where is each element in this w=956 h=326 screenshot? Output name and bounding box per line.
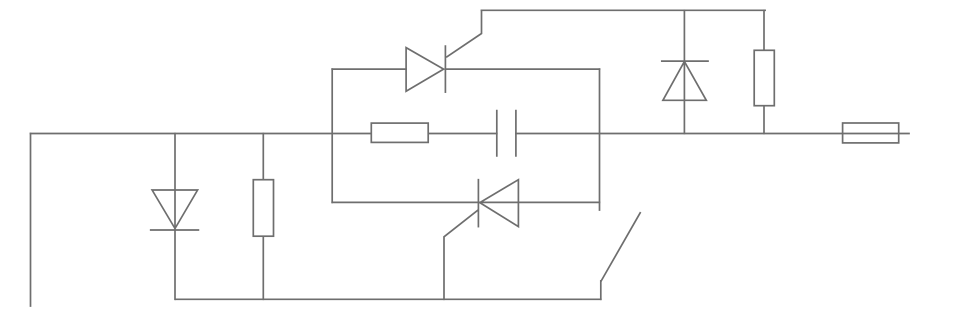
wire: left diode branch vertical [174,134,176,300]
wire: bottom branch [332,201,599,203]
wire: left resistor branch vertical [262,134,264,300]
wire: snubber box right vertical (with contact stub below) [599,69,601,210]
fuse FU1 (right, in main bus) [843,123,899,143]
resistor R2 (horizontal, in main bus) [371,123,428,142]
wire: bottom return bus [176,298,601,300]
wire: main horizontal bus (right segment from capacitor to right end) [516,133,909,135]
wire: left vertical drop at far left [30,134,32,307]
thyristor V2 (bottom branch, pointing left) [478,180,518,227]
wire: clamp resistor branch vertical [763,10,765,133]
wire: clamp diode branch vertical [683,10,685,133]
wire: thyristor V2 gate lead [444,211,478,300]
wire: top branch cathode lead [445,68,599,70]
switch S1 (open, bottom right) [601,213,640,299]
wire: thyristor V1 gate lead [447,10,482,57]
wire: top bus from gate to clamp branches [482,9,766,11]
diode D2 (clamp branch, cathode up) [662,61,708,100]
resistor R3 (clamp branch, vertical) [754,50,774,105]
thyristor V1 (top branch, pointing right) [406,46,445,92]
diode D1 (left branch, cathode down) [151,190,199,230]
wire: top branch anode lead [332,68,406,70]
wire: main horizontal bus (left segment to capacitor) [31,133,497,135]
capacitor C1 (in main bus) [497,111,516,156]
resistor R1 (left branch, vertical) [253,180,273,237]
wire: snubber box left vertical [331,69,333,202]
